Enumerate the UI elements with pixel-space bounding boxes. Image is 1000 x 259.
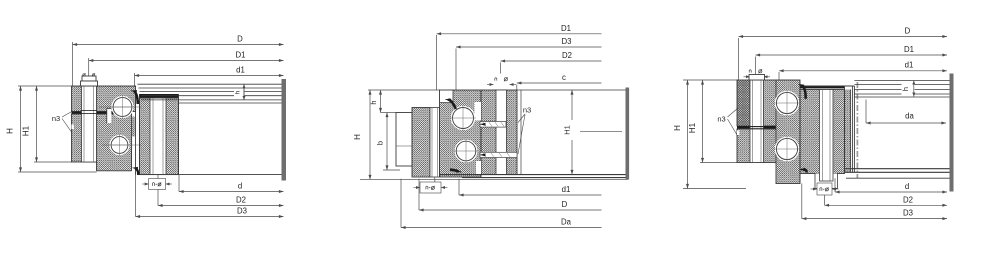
svg-text:da: da — [905, 112, 914, 121]
svg-text:b: b — [376, 141, 385, 145]
svg-text:h: h — [235, 90, 242, 94]
svg-text:H1: H1 — [688, 122, 697, 133]
svg-text:H: H — [353, 134, 362, 140]
svg-text:d: d — [905, 182, 909, 191]
svg-text:D: D — [905, 27, 911, 36]
svg-text:H: H — [6, 128, 15, 134]
svg-text:D2: D2 — [236, 196, 246, 205]
svg-text:h: h — [901, 87, 910, 91]
svg-text:D3: D3 — [903, 209, 913, 218]
svg-text:d1: d1 — [236, 66, 245, 75]
svg-text:D3: D3 — [237, 207, 247, 216]
svg-text:h: h — [369, 100, 378, 104]
svg-text:D1: D1 — [904, 45, 914, 54]
svg-text:D2: D2 — [903, 195, 913, 204]
svg-text:n3: n3 — [717, 115, 725, 124]
svg-text:Da: Da — [561, 218, 572, 227]
svg-text:D2: D2 — [562, 51, 572, 60]
svg-text:c: c — [562, 73, 566, 82]
svg-text:n3: n3 — [523, 106, 531, 115]
svg-text:D3: D3 — [562, 37, 572, 46]
svg-text:H1: H1 — [563, 125, 572, 135]
svg-text:D: D — [237, 35, 243, 44]
svg-text:d1: d1 — [905, 61, 914, 70]
svg-text:d: d — [238, 182, 242, 191]
svg-text:D1: D1 — [561, 24, 571, 33]
svg-text:d1: d1 — [562, 185, 571, 194]
svg-text:D: D — [562, 200, 568, 209]
svg-text:n3: n3 — [52, 114, 60, 123]
svg-text:H: H — [673, 125, 682, 131]
svg-text:H1: H1 — [22, 125, 31, 136]
svg-text:D1: D1 — [236, 51, 246, 60]
